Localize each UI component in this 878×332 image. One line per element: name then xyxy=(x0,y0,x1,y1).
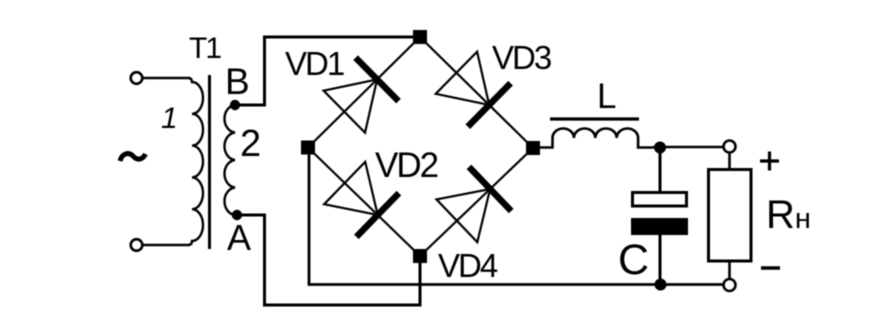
svg-text:T1: T1 xyxy=(189,32,221,65)
svg-text:VD4: VD4 xyxy=(438,247,498,284)
svg-text:VD3: VD3 xyxy=(492,39,551,76)
svg-text:VD1: VD1 xyxy=(285,45,344,82)
svg-text:1: 1 xyxy=(161,102,178,135)
svg-text:L: L xyxy=(597,77,616,116)
svg-text:A: A xyxy=(227,217,251,258)
svg-text:B: B xyxy=(225,61,250,102)
svg-text:Rн: Rн xyxy=(766,193,811,237)
svg-text:2: 2 xyxy=(240,123,261,165)
svg-text:C: C xyxy=(618,236,649,284)
svg-text:VD2: VD2 xyxy=(375,146,438,185)
